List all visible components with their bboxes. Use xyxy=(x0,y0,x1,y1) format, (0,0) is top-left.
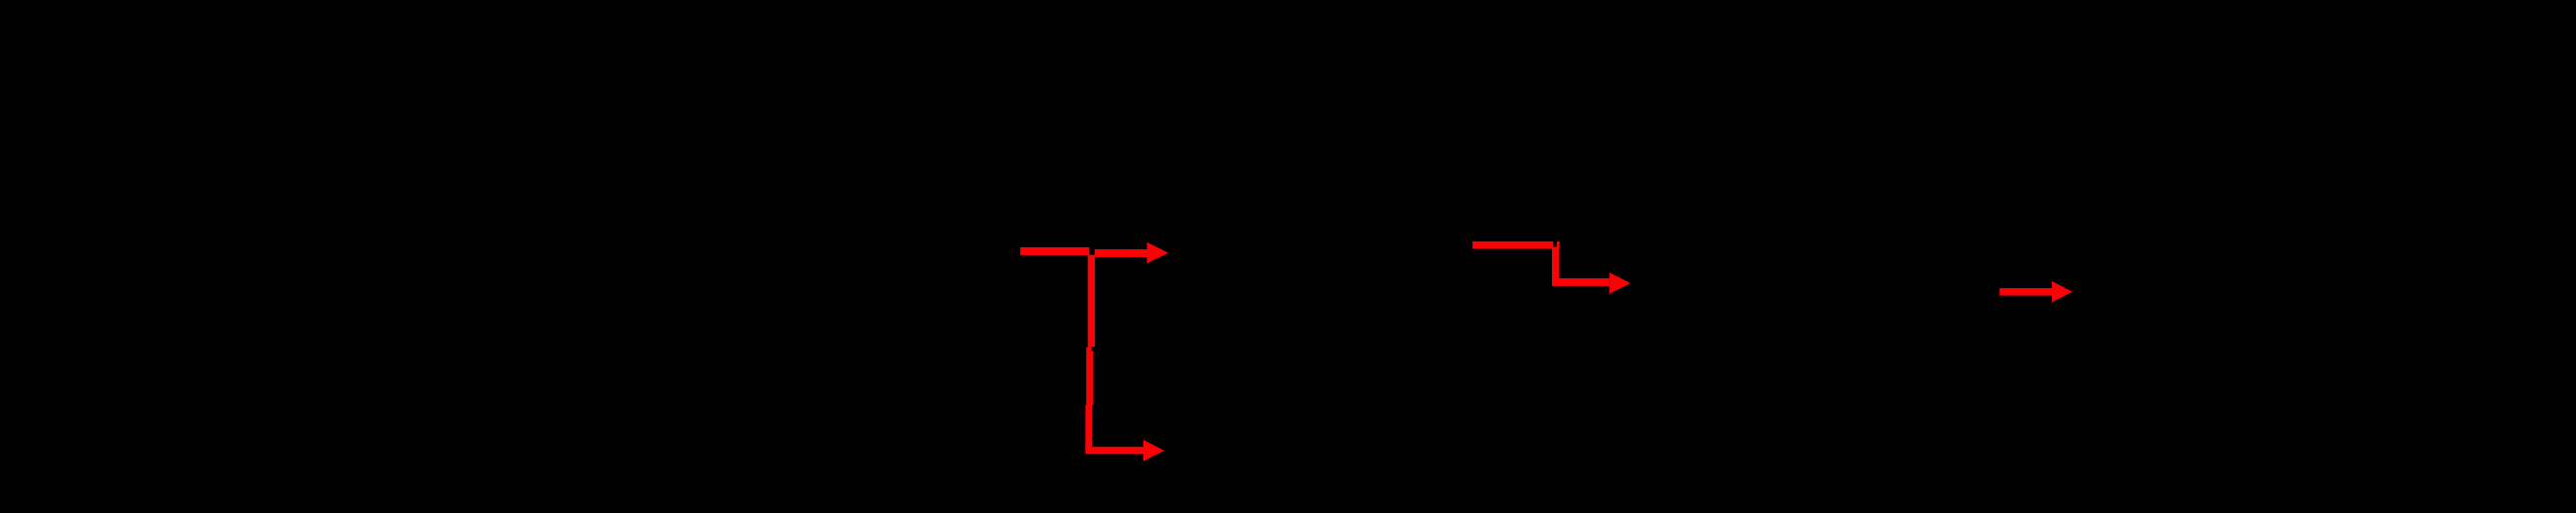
reaction arrow C (third step, short horizontal red arrow) xyxy=(1999,281,2072,303)
reaction arrow A1 (first step, horizontal red arrow) xyxy=(1020,242,1169,264)
red branch line (vertical, from arrow A1 down to arrow A2) xyxy=(1085,255,1095,452)
black bond overlay crossing arrow A1 xyxy=(1089,231,1094,255)
reaction arrow B elbow and head (drawn over bond overlay) xyxy=(1552,248,1631,294)
black notch at branch line joint xyxy=(1092,347,1096,351)
reaction arrow B (second step, red step/elbow arrow) xyxy=(1472,241,1560,249)
black bond overlay crossing arrow B xyxy=(1553,231,1557,247)
reaction arrow A2 (branch product, bottom horizontal red arrow) xyxy=(1085,440,1164,462)
